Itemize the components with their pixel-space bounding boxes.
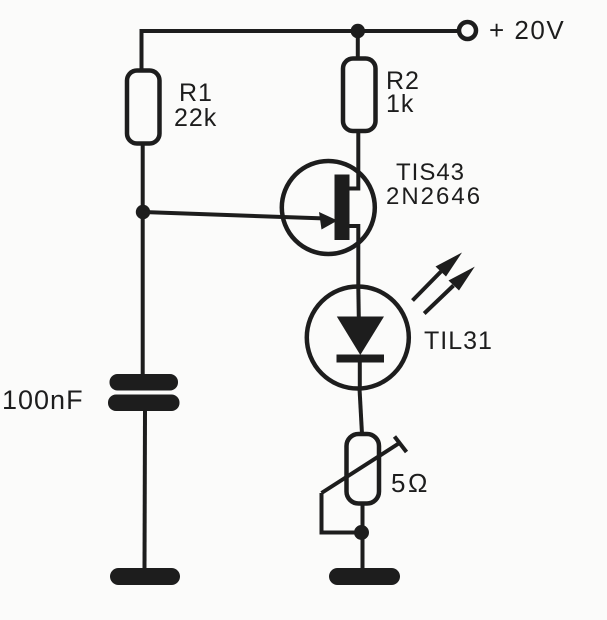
resistor R2 [343,59,376,132]
wire base-one lead to LED [349,226,358,287]
svg-text:R1: R1 [179,79,213,107]
resistor R1 [127,71,160,144]
svg-text:+ 20V: + 20V [489,15,565,45]
wire LED to rheostat [360,389,363,435]
node emitter junction [136,205,150,219]
capacitor C1 bottom plate [108,395,180,412]
svg-text:22k: 22k [174,104,217,132]
emitter arrowhead [319,212,338,230]
wire LED cathode exit [358,362,362,389]
transistor Q1 circle [282,161,375,254]
svg-text:TIS43: TIS43 [396,159,465,186]
ground right [329,568,400,585]
rheostat body [347,434,380,504]
wire top supply rail [142,31,458,71]
svg-text:1k: 1k [386,90,414,118]
node wiper junction [354,525,369,540]
wire R1 bottom to capacitor [141,144,145,375]
svg-text:5Ω: 5Ω [391,468,430,498]
svg-text:100nF: 100nF [2,385,84,415]
wire rheostat bottom to ground [361,504,365,569]
ground left [110,568,180,585]
LED D1 circle [307,287,409,389]
wire wiper return [322,493,362,533]
rheostat wiper end tick [395,437,407,453]
wire R2 to base-two lead [349,131,358,189]
wire emitter lead [143,212,326,219]
wire rail to R2 top [356,31,360,59]
capacitor C1 top plate [110,374,179,391]
node supply junction [351,24,365,38]
svg-text:TIL31: TIL31 [424,327,493,355]
transistor Q1 base bar [335,175,350,241]
svg-text:2N2646: 2N2646 [386,183,482,210]
LED light arrow 1 [413,272,442,301]
wire LED anode entry [356,287,361,318]
LED D1 triangle [337,317,384,356]
terminal +20V [459,22,476,39]
LED light arrow 2 [424,286,453,314]
LED D1 cathode bar [337,355,385,363]
rheostat wiper diagonal [322,442,402,493]
wire capacitor to ground [143,411,148,568]
